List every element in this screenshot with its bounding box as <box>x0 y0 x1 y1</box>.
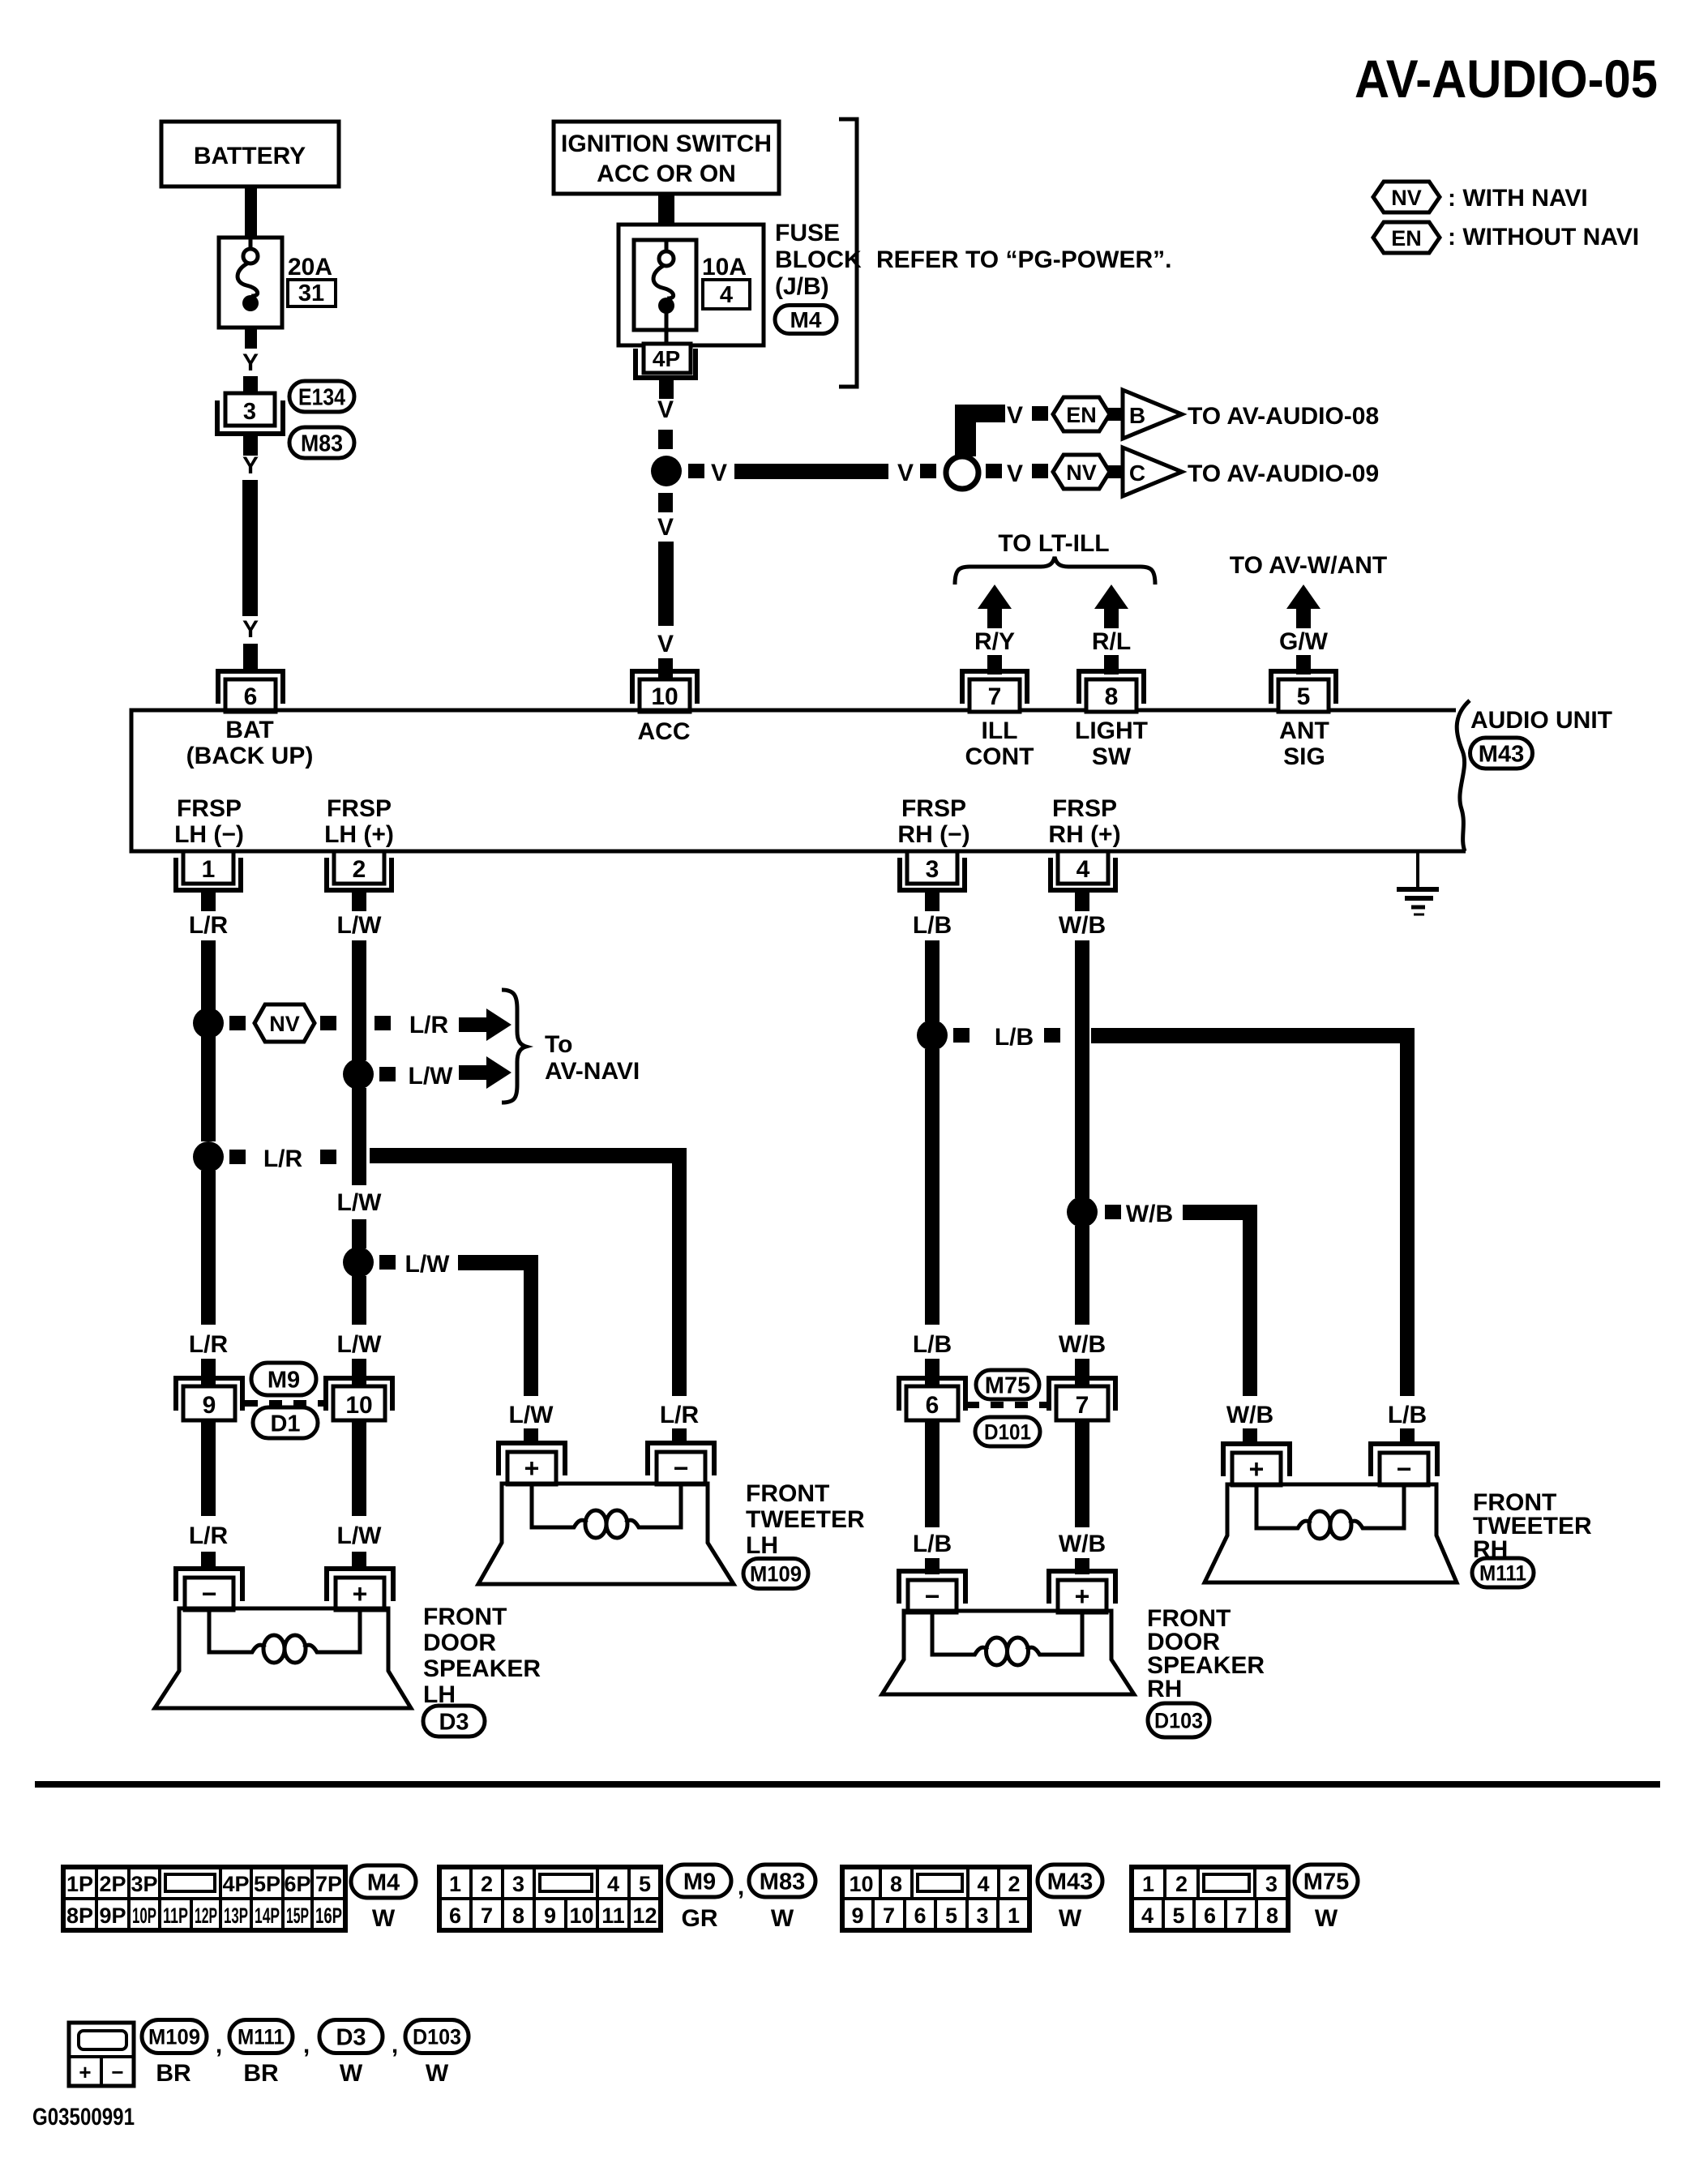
wire EN branch elbow <box>955 405 1005 422</box>
svg-text:6: 6 <box>1204 1904 1216 1928</box>
svg-text:W/B: W/B <box>1059 1331 1106 1358</box>
wire dash L/W branch <box>379 1255 396 1270</box>
wire stub pin3 <box>925 890 940 911</box>
arrow up R/Y <box>978 585 1012 609</box>
dashed link 6-7 <box>966 1402 1047 1408</box>
svg-text:10: 10 <box>651 683 678 710</box>
wire Y long <box>242 480 258 616</box>
wire L/B seg2 <box>925 1049 940 1325</box>
wire dash <box>375 1016 391 1030</box>
svg-text:V: V <box>1007 402 1023 429</box>
fusible link 20A <box>219 238 282 328</box>
svg-text:L/B: L/B <box>913 912 952 939</box>
brace To AV-NAVI <box>502 990 526 1103</box>
arrow up R/L <box>1094 585 1128 609</box>
legend NV symbol <box>1373 182 1440 212</box>
svg-text:M43: M43 <box>1479 741 1524 767</box>
wire W/B seg4 <box>1075 1420 1089 1527</box>
svg-text:LH: LH <box>746 1532 778 1559</box>
svg-text:AV-NAVI: AV-NAVI <box>545 1058 640 1085</box>
wire stub pin1 <box>201 890 216 911</box>
svg-text:BAT: BAT <box>225 717 273 743</box>
svg-text:6: 6 <box>244 683 258 710</box>
terminal tweeter LH minus <box>648 1443 714 1475</box>
svg-text:BLOCK: BLOCK <box>775 246 862 273</box>
svg-text:7: 7 <box>1076 1392 1089 1419</box>
wire dash NV branch <box>229 1016 246 1030</box>
connector designator D3 bottom <box>319 2020 383 2053</box>
wire L/W seg1 <box>352 940 366 1060</box>
svg-text:L/R: L/R <box>189 1331 229 1358</box>
connector designator M83 bottom <box>749 1865 815 1897</box>
arrow up G/W <box>1286 585 1320 609</box>
svg-text:4P: 4P <box>222 1872 249 1896</box>
svg-text:10A: 10A <box>702 254 747 280</box>
svg-text:3: 3 <box>1265 1872 1278 1896</box>
legend EN symbol <box>1373 222 1440 253</box>
wire L/R seg3 <box>201 1171 216 1325</box>
wire below connector <box>243 434 258 456</box>
junction L/R tweeter branch <box>193 1141 224 1172</box>
wire fusible link to Y <box>245 326 257 349</box>
wire battery to fusible link <box>245 185 257 239</box>
svg-text:: WITHOUT NAVI: : WITHOUT NAVI <box>1448 224 1639 251</box>
wire dash NV row <box>1032 464 1048 478</box>
svg-text:8: 8 <box>890 1872 902 1896</box>
svg-text:1: 1 <box>1008 1904 1020 1928</box>
svg-text:L/R: L/R <box>409 1012 449 1038</box>
terminal door speaker LH plus <box>327 1569 393 1601</box>
svg-text:8: 8 <box>1266 1904 1278 1928</box>
wire L/R branch horizontal <box>370 1148 687 1163</box>
svg-text:TO AV-AUDIO-08: TO AV-AUDIO-08 <box>1188 403 1379 430</box>
svg-text:M111: M111 <box>1479 1561 1526 1586</box>
svg-text:M4: M4 <box>367 1869 400 1895</box>
svg-text:+: + <box>79 2060 91 2084</box>
wire L/R branch vertical <box>672 1148 687 1396</box>
svg-text:4: 4 <box>1076 856 1090 883</box>
wire L/W seg2 <box>352 1088 366 1185</box>
svg-text:9: 9 <box>203 1392 216 1419</box>
wire to tweeter RH minus <box>1400 1428 1415 1445</box>
wire dash <box>320 1016 336 1030</box>
fuse number 4 <box>703 280 750 309</box>
svg-text:4: 4 <box>1141 1904 1154 1928</box>
wire to tweeter RH plus <box>1243 1428 1257 1445</box>
audio unit pin 3 <box>907 851 957 884</box>
wire dash L/R branch <box>229 1150 246 1164</box>
bracket fuse block group <box>839 119 857 387</box>
junction L/W NAVI branch <box>343 1059 374 1090</box>
svg-text:1: 1 <box>449 1872 461 1896</box>
svg-text:LH (+): LH (+) <box>324 821 394 848</box>
audio unit pin 8 <box>1079 671 1144 704</box>
connector designator D1 <box>253 1407 318 1438</box>
svg-text:R/Y: R/Y <box>974 628 1015 655</box>
svg-text:L/W: L/W <box>405 1251 451 1278</box>
svg-text:L/W: L/W <box>337 1522 383 1549</box>
svg-text:W: W <box>1059 1905 1082 1932</box>
audio unit pin 10 <box>632 671 697 704</box>
svg-text:W: W <box>372 1905 396 1932</box>
wire to pin 7 <box>987 655 1002 674</box>
svg-text:SPEAKER: SPEAKER <box>423 1655 541 1682</box>
svg-text:1P: 1P <box>66 1872 93 1896</box>
svg-text:5: 5 <box>639 1872 651 1896</box>
svg-text:7: 7 <box>883 1904 895 1928</box>
svg-text:7: 7 <box>1235 1904 1247 1928</box>
svg-text:TO AV-AUDIO-09: TO AV-AUDIO-09 <box>1188 460 1379 487</box>
wire to connector E134 <box>243 376 258 395</box>
svg-text:G03500991: G03500991 <box>32 2104 135 2130</box>
svg-text:V: V <box>657 631 674 657</box>
wire W/B seg1 <box>1075 940 1089 1198</box>
svg-text:L/R: L/R <box>660 1402 700 1428</box>
svg-text:,: , <box>303 2032 310 2058</box>
svg-text:9P: 9P <box>99 1904 126 1928</box>
svg-text:L/W: L/W <box>409 1063 454 1090</box>
svg-text:BATTERY: BATTERY <box>194 143 306 169</box>
svg-text:−: − <box>1397 1454 1412 1484</box>
svg-text:2: 2 <box>1008 1872 1020 1896</box>
svg-text:REFER TO “PG-POWER”.: REFER TO “PG-POWER”. <box>876 246 1171 273</box>
wire dash L/W NAVI <box>379 1067 396 1081</box>
svg-text:M83: M83 <box>760 1869 805 1895</box>
audio unit pin 7 <box>962 671 1027 704</box>
wire L/W branch horizontal <box>458 1255 538 1270</box>
connector face M75 <box>1132 1867 1165 1899</box>
wire L/R seg5 <box>201 1420 216 1516</box>
svg-text:EN: EN <box>1391 226 1422 251</box>
svg-text:,: , <box>216 2032 222 2058</box>
svg-text:12P: 12P <box>195 1904 217 1928</box>
svg-text:3: 3 <box>512 1872 524 1896</box>
svg-text:10: 10 <box>569 1904 593 1928</box>
ignition switch <box>554 122 779 194</box>
wire L/W seg6 <box>352 1420 366 1516</box>
svg-text:TO AV-W/ANT: TO AV-W/ANT <box>1230 552 1387 579</box>
fuse 10A <box>634 240 696 330</box>
wire L/W seg4 <box>352 1276 366 1325</box>
svg-text:,: , <box>738 1874 744 1900</box>
wire dash W/B branch <box>1105 1205 1121 1219</box>
svg-text:V: V <box>1007 460 1023 487</box>
svg-text:EN: EN <box>1066 403 1097 427</box>
connector designator E134 <box>289 381 354 412</box>
svg-text:7: 7 <box>481 1904 493 1928</box>
svg-text:V: V <box>897 460 914 486</box>
connector designator M75 bottom <box>1295 1865 1358 1897</box>
svg-text:C: C <box>1129 460 1145 486</box>
wire to tweeter LH minus <box>672 1428 687 1445</box>
wire L/B seg5 <box>925 1558 940 1574</box>
arrow to AV-NAVI L/W <box>459 1065 488 1080</box>
svg-text:9: 9 <box>544 1904 556 1928</box>
svg-text:FRSP: FRSP <box>177 795 242 822</box>
svg-text:4: 4 <box>607 1872 619 1896</box>
svg-text:3: 3 <box>976 1904 988 1928</box>
svg-text:3P: 3P <box>131 1872 157 1896</box>
wire dash <box>920 464 936 478</box>
wire stub pin2 <box>352 890 366 911</box>
connector face M43 <box>842 1867 880 1899</box>
svg-text:1: 1 <box>202 856 216 883</box>
junction L/W tweeter branch <box>343 1247 374 1278</box>
svg-text:4: 4 <box>720 282 733 308</box>
junction L/B tweeter branch <box>917 1020 948 1051</box>
audio unit pin 6 <box>218 671 283 704</box>
svg-text:1: 1 <box>1142 1872 1154 1896</box>
svg-text:M9: M9 <box>268 1367 300 1393</box>
off-page triangle B <box>1123 390 1182 439</box>
svg-text:9: 9 <box>851 1904 863 1928</box>
audio unit M43 outline <box>131 710 1466 851</box>
audio unit pin 5 <box>1271 671 1336 704</box>
connector designator M9 bottom <box>668 1865 731 1897</box>
connector M75/D101 pin 6 <box>899 1378 965 1411</box>
svg-text:R/L: R/L <box>1092 628 1131 655</box>
svg-text:−: − <box>111 2060 123 2084</box>
wire V vertical <box>658 542 674 626</box>
wire dash <box>986 464 1002 478</box>
svg-text:7P: 7P <box>315 1872 342 1896</box>
svg-text:6: 6 <box>449 1904 461 1928</box>
svg-text:Y: Y <box>242 452 259 479</box>
svg-text:8P: 8P <box>66 1904 93 1928</box>
svg-text:M109: M109 <box>148 2025 200 2049</box>
svg-text:W: W <box>1315 1905 1338 1932</box>
svg-text:W/B: W/B <box>1059 1531 1106 1557</box>
svg-text:M83: M83 <box>301 430 343 456</box>
svg-text:FRONT: FRONT <box>746 1480 829 1507</box>
connector 4P <box>644 344 691 373</box>
svg-text:M75: M75 <box>1303 1869 1349 1895</box>
svg-text:L/B: L/B <box>913 1531 952 1557</box>
svg-text:D1: D1 <box>270 1411 300 1437</box>
wire L/W branch vertical <box>524 1255 538 1396</box>
svg-text:5: 5 <box>1297 683 1311 710</box>
wire to pin 8 <box>1104 655 1119 674</box>
svg-text:ANT: ANT <box>1279 717 1329 744</box>
svg-text:L/W: L/W <box>337 912 383 939</box>
svg-text:To: To <box>545 1031 572 1058</box>
wire L/W seg7 <box>352 1552 366 1571</box>
wire V horizontal <box>734 464 888 479</box>
svg-text:14P: 14P <box>255 1904 280 1928</box>
svg-text:11P: 11P <box>163 1904 188 1928</box>
svg-text:V: V <box>711 460 727 486</box>
svg-text:RH (−): RH (−) <box>897 821 969 848</box>
wire L/B seg1 <box>925 940 940 1021</box>
svg-text:2: 2 <box>1175 1872 1188 1896</box>
terminal door speaker LH minus <box>176 1569 242 1601</box>
wire dash right of junction <box>688 464 704 478</box>
svg-text:W/B: W/B <box>1059 912 1106 939</box>
svg-text:V: V <box>657 396 674 423</box>
svg-text:L/B: L/B <box>995 1024 1034 1051</box>
svg-text:5: 5 <box>945 1904 957 1928</box>
svg-text:FRSP: FRSP <box>327 795 392 822</box>
svg-text:L/R: L/R <box>263 1146 303 1172</box>
connector designator M75 <box>976 1370 1039 1399</box>
svg-text:DOOR: DOOR <box>423 1629 496 1656</box>
svg-text:SW: SW <box>1092 743 1132 770</box>
svg-text:W/B: W/B <box>1226 1402 1273 1428</box>
speaker front door RH body <box>882 1611 1134 1694</box>
svg-text:+: + <box>1249 1454 1265 1484</box>
wire L/B seg4 <box>925 1420 940 1527</box>
svg-text:LIGHT: LIGHT <box>1075 717 1148 744</box>
svg-text:−: − <box>925 1582 940 1611</box>
svg-text:L/W: L/W <box>337 1331 383 1358</box>
svg-text:D3: D3 <box>439 1709 469 1735</box>
connector designator M109 bottom <box>142 2020 207 2053</box>
wire below 4P <box>659 380 674 399</box>
svg-text:13P: 13P <box>224 1904 248 1928</box>
svg-text:−: − <box>202 1579 217 1608</box>
svg-text:31: 31 <box>298 280 324 306</box>
wire to tweeter LH plus <box>524 1428 538 1445</box>
connector designator M83 <box>289 427 354 458</box>
wire dash <box>658 430 673 449</box>
audio unit pin 4 <box>1058 851 1108 884</box>
svg-text:FRSP: FRSP <box>1052 795 1117 822</box>
svg-text:20A: 20A <box>288 254 332 280</box>
svg-text:(BACK UP): (BACK UP) <box>186 743 314 769</box>
svg-text:7: 7 <box>988 683 1002 710</box>
svg-text:FUSE: FUSE <box>775 220 840 246</box>
svg-text:NV: NV <box>269 1012 300 1036</box>
svg-text:RH: RH <box>1147 1676 1182 1702</box>
svg-text:BR: BR <box>243 2060 279 2087</box>
wire L/W seg5 <box>352 1359 366 1388</box>
svg-text:D103: D103 <box>1154 1709 1203 1733</box>
terminal door speaker RH plus <box>1049 1571 1115 1604</box>
option symbol NV <box>1053 455 1110 489</box>
svg-text:M111: M111 <box>238 2025 285 2049</box>
svg-text:2: 2 <box>481 1872 493 1896</box>
svg-text:3: 3 <box>243 399 256 425</box>
svg-text:W: W <box>771 1905 794 1932</box>
wire L/R seg2 <box>201 1036 216 1141</box>
connector E134/M83 pin 3 <box>225 393 275 426</box>
svg-text:8: 8 <box>512 1904 524 1928</box>
svg-text:+: + <box>524 1454 540 1483</box>
svg-text:Y: Y <box>242 616 259 643</box>
svg-text:16P: 16P <box>315 1904 342 1928</box>
connector designator D3 <box>423 1706 485 1736</box>
separator line <box>35 1781 1660 1788</box>
svg-text:10: 10 <box>345 1392 372 1419</box>
wire dash EN row <box>1032 406 1048 421</box>
svg-text:SIG: SIG <box>1283 743 1325 770</box>
battery B1 <box>161 122 339 186</box>
svg-text:RH (+): RH (+) <box>1048 821 1120 848</box>
terminal door speaker RH minus <box>899 1571 965 1604</box>
svg-text:M4: M4 <box>790 307 822 332</box>
svg-text:6: 6 <box>914 1904 926 1928</box>
svg-text:2: 2 <box>353 856 366 883</box>
fuse block J/B outline <box>619 225 764 345</box>
wire W/B branch vertical <box>1243 1205 1257 1396</box>
svg-text:CONT: CONT <box>965 743 1034 770</box>
svg-text:: WITH NAVI: : WITH NAVI <box>1448 185 1588 212</box>
svg-text:TWEETER: TWEETER <box>746 1506 865 1533</box>
svg-text:L/R: L/R <box>189 1522 229 1549</box>
svg-text:G/W: G/W <box>1279 628 1329 655</box>
speaker front door LH body <box>155 1608 411 1708</box>
svg-text:AUDIO UNIT: AUDIO UNIT <box>1470 707 1612 734</box>
connector face M4 <box>63 1867 96 1899</box>
junction L/R NV branch <box>193 1008 224 1038</box>
svg-text:W: W <box>340 2060 363 2087</box>
svg-text:M9: M9 <box>683 1869 716 1895</box>
svg-text:5: 5 <box>1172 1904 1184 1928</box>
wire L/B branch horizontal <box>1091 1028 1415 1043</box>
connector designator D103 <box>1148 1703 1209 1737</box>
connector designator M4 bottom <box>351 1865 416 1898</box>
connector designator M4 <box>775 306 837 334</box>
svg-text:W/B: W/B <box>1126 1201 1173 1227</box>
wire L/R seg6 <box>201 1552 216 1571</box>
svg-text:LH (−): LH (−) <box>174 821 244 848</box>
svg-text:Y: Y <box>242 349 259 376</box>
svg-text:+: + <box>353 1579 368 1608</box>
wire to pin 5 <box>1296 655 1311 674</box>
connector designator M43 <box>1470 738 1533 769</box>
wire to pin 6 <box>243 644 258 673</box>
connector designator M111 <box>1472 1558 1534 1587</box>
svg-text:ACC OR ON: ACC OR ON <box>597 161 736 187</box>
connector designator M9 <box>251 1363 316 1395</box>
connector designator D101 <box>975 1417 1040 1446</box>
speaker front tweeter LH body <box>478 1484 734 1584</box>
svg-text:+: + <box>1075 1582 1090 1611</box>
svg-text:ILL: ILL <box>982 717 1018 744</box>
wire dash <box>1044 1028 1060 1043</box>
svg-text:W: W <box>426 2060 449 2087</box>
svg-text:M109: M109 <box>750 1562 802 1587</box>
svg-text:12: 12 <box>632 1904 657 1928</box>
wire to pin 10 <box>658 658 673 679</box>
junction ACC node <box>651 456 682 486</box>
audio unit pin 1 <box>183 851 233 884</box>
svg-text:6P: 6P <box>284 1872 310 1896</box>
svg-text:TO LT-ILL: TO LT-ILL <box>998 530 1109 557</box>
wire L/B branch vertical <box>1400 1028 1415 1396</box>
svg-text:4: 4 <box>977 1872 989 1896</box>
svg-text:BR: BR <box>156 2060 191 2087</box>
wire W/B seg5 <box>1075 1558 1089 1574</box>
svg-text:10: 10 <box>849 1872 873 1896</box>
wire W/B seg2 <box>1075 1226 1089 1325</box>
terminal tweeter LH plus <box>499 1443 565 1475</box>
svg-text:L/W: L/W <box>337 1189 383 1216</box>
svg-text:V: V <box>657 514 674 541</box>
svg-text:15P: 15P <box>286 1904 309 1928</box>
svg-text:4P: 4P <box>653 346 680 371</box>
svg-text:FRSP: FRSP <box>901 795 966 822</box>
wire EN to triangle B <box>1108 408 1124 421</box>
svg-text:8: 8 <box>1105 683 1119 710</box>
svg-text:NV: NV <box>1391 186 1422 210</box>
connector M9/D1 pin 9 <box>176 1378 242 1411</box>
wire stub pin4 <box>1075 890 1089 911</box>
svg-text:M75: M75 <box>985 1372 1030 1398</box>
svg-text:L/B: L/B <box>913 1331 952 1358</box>
wire W/B branch horizontal <box>1183 1205 1257 1220</box>
svg-text:−: − <box>674 1454 689 1483</box>
